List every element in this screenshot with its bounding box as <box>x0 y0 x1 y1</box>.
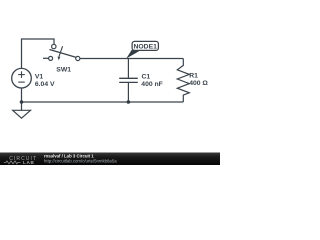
wire bottom rail <box>22 101 184 103</box>
svg-text:6.04 V: 6.04 V <box>35 81 55 88</box>
svg-text:V1: V1 <box>35 74 44 81</box>
NODE1 pointer wedge <box>126 50 140 59</box>
C1 top lead <box>127 59 129 79</box>
SW1 blade <box>50 50 77 58</box>
SW1 actuator arrow head <box>58 57 61 61</box>
V1 minus sign <box>18 81 25 83</box>
V1 circle body <box>12 68 32 88</box>
switch SW1 <box>43 44 80 60</box>
SW1 open throw terminal stub <box>43 57 49 59</box>
svg-text:R1: R1 <box>189 73 198 80</box>
svg-text:SW1: SW1 <box>56 67 71 74</box>
wire V1 bottom to ground rail <box>21 88 23 102</box>
wire switch to R1 <box>80 58 184 60</box>
junction dot at V1/ground rail <box>20 100 24 104</box>
SW1 actuator arrow shaft <box>59 46 63 56</box>
wire top rail <box>22 39 55 68</box>
svg-text:400 nF: 400 nF <box>141 81 163 88</box>
C1 top plate <box>119 77 138 79</box>
V1 plus sign <box>18 74 25 76</box>
ground triangle <box>13 110 31 118</box>
NODE1 rounded box <box>132 41 158 50</box>
svg-text:C1: C1 <box>142 74 151 81</box>
node tag NODE1 <box>126 41 158 58</box>
voltage source V1 <box>12 68 32 88</box>
C1 bottom plate <box>119 81 138 83</box>
SW1 closed throw terminal (right) <box>76 56 80 60</box>
CircuitLab logo zigzag <box>4 161 21 164</box>
svg-text:400 Ω: 400 Ω <box>189 80 208 87</box>
svg-text:NODE1: NODE1 <box>133 43 157 50</box>
ground stem wire <box>21 102 23 110</box>
svg-text:LAB: LAB <box>23 160 35 165</box>
resistor R1 <box>177 59 189 103</box>
capacitor C1 <box>119 59 138 103</box>
C1 bottom lead <box>127 82 129 102</box>
junction dot at C1 bottom rail <box>127 100 131 104</box>
ground <box>13 102 31 118</box>
svg-text:http://circuitlab.com/c/urte/5: http://circuitlab.com/c/urte/5nmkb8a5a <box>44 159 117 164</box>
SW1 common terminal (top) <box>52 44 56 48</box>
footer bar <box>0 153 220 166</box>
SW1 open throw terminal (left) <box>49 56 53 60</box>
